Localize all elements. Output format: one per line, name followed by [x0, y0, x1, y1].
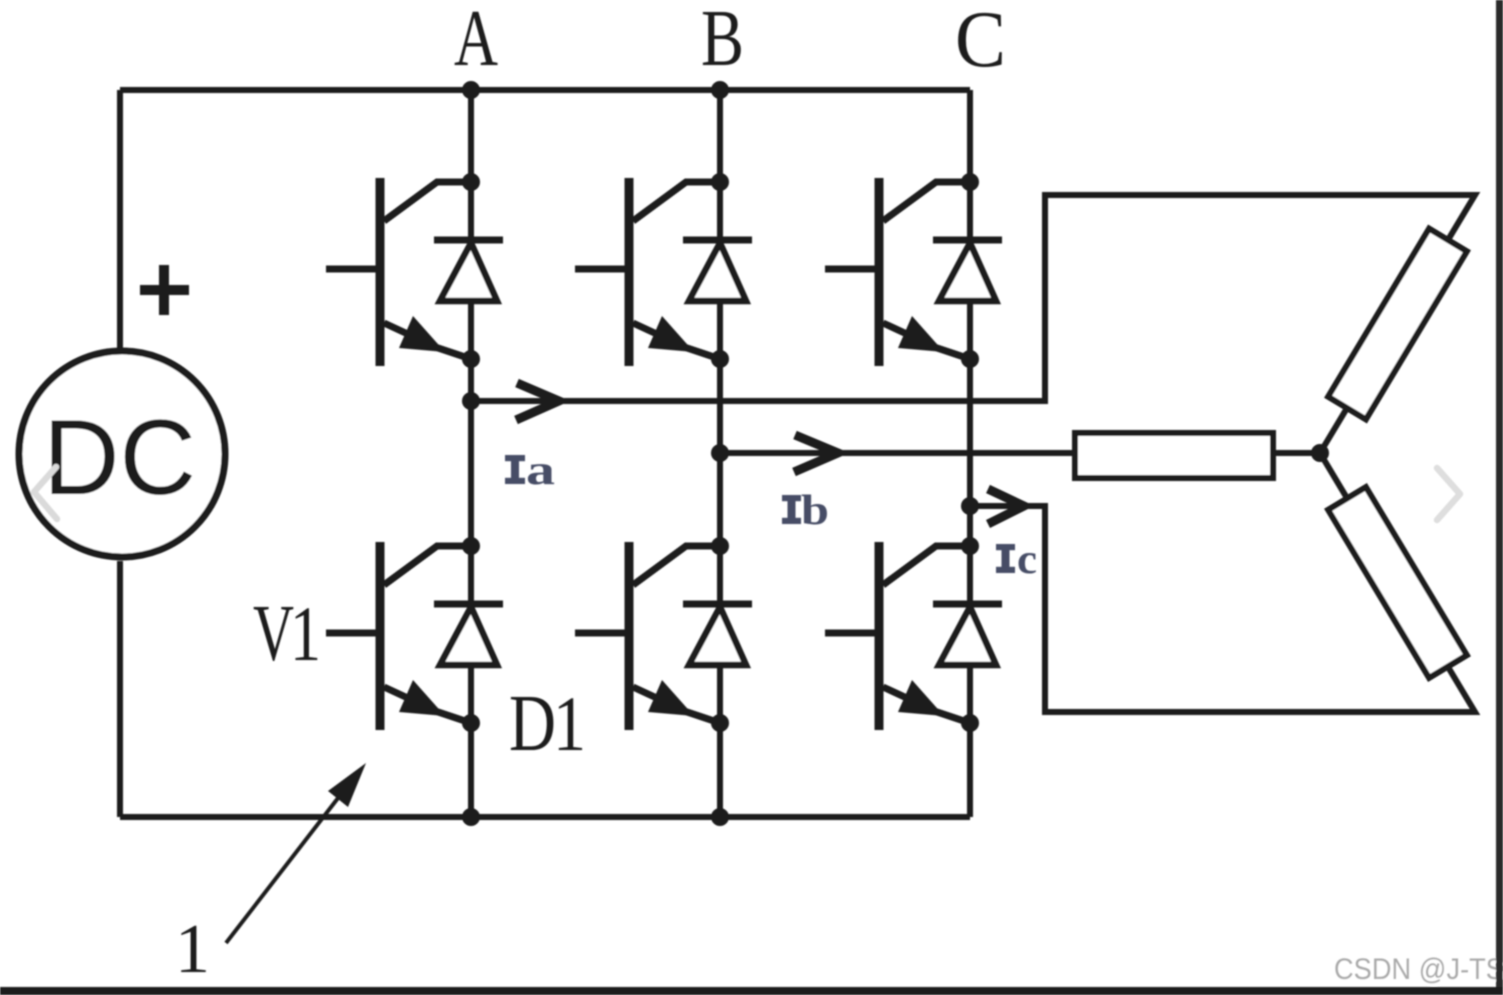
svg-text:DC: DC: [43, 397, 196, 517]
svg-text:CSDN @J-TS: CSDN @J-TS: [1334, 953, 1503, 986]
svg-text:B: B: [701, 0, 744, 83]
svg-text:A: A: [454, 0, 498, 83]
svg-text:V: V: [253, 590, 294, 678]
svg-text:b: b: [801, 488, 829, 534]
svg-text:a: a: [526, 448, 555, 494]
svg-text:C: C: [955, 0, 1006, 84]
svg-text:1: 1: [553, 680, 586, 767]
svg-text:1: 1: [175, 911, 210, 988]
svg-text:D: D: [509, 678, 556, 768]
svg-text:c: c: [1017, 537, 1037, 583]
svg-text:1: 1: [290, 590, 321, 677]
